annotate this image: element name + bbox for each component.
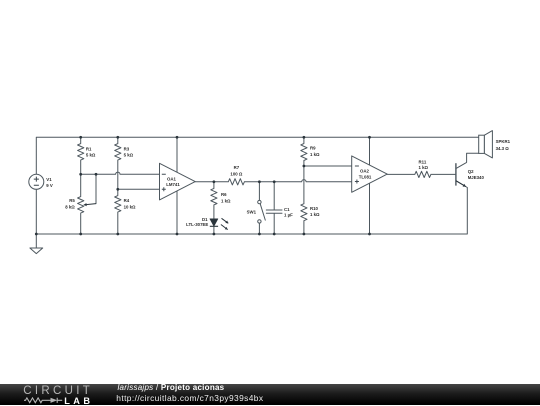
svg-text:1 kΩ: 1 kΩ bbox=[221, 198, 231, 203]
svg-text:1 µF: 1 µF bbox=[284, 212, 293, 217]
svg-text:LTL-307EE: LTL-307EE bbox=[186, 222, 208, 227]
svg-text:SPKR1: SPKR1 bbox=[496, 139, 511, 144]
svg-text:1 kΩ: 1 kΩ bbox=[310, 212, 320, 217]
svg-text:OA2: OA2 bbox=[360, 169, 370, 174]
svg-text:8 kΩ: 8 kΩ bbox=[65, 204, 75, 209]
svg-text:5 kΩ: 5 kΩ bbox=[86, 153, 96, 158]
svg-text:C1: C1 bbox=[284, 207, 290, 212]
svg-text:R5: R5 bbox=[69, 198, 75, 203]
svg-text:100 Ω: 100 Ω bbox=[230, 171, 242, 176]
svg-text:R11: R11 bbox=[419, 159, 427, 164]
svg-text:Q2: Q2 bbox=[468, 169, 474, 174]
svg-text:V1: V1 bbox=[46, 177, 52, 182]
svg-text:9 V: 9 V bbox=[46, 183, 53, 188]
svg-text:R7: R7 bbox=[234, 165, 240, 170]
svg-text:R6: R6 bbox=[221, 192, 227, 197]
svg-text:R1: R1 bbox=[86, 146, 92, 151]
svg-text:MJE340: MJE340 bbox=[468, 175, 485, 180]
svg-text:OA1: OA1 bbox=[167, 176, 177, 181]
svg-text:SW1: SW1 bbox=[247, 209, 257, 214]
svg-text:TL081: TL081 bbox=[359, 175, 372, 180]
svg-text:34.3 Ω: 34.3 Ω bbox=[496, 146, 510, 151]
svg-text:LM741: LM741 bbox=[166, 182, 180, 187]
svg-text:R9: R9 bbox=[310, 146, 316, 151]
svg-text:1 kΩ: 1 kΩ bbox=[310, 152, 320, 157]
svg-text:R4: R4 bbox=[124, 198, 130, 203]
svg-text:1 kΩ: 1 kΩ bbox=[419, 165, 429, 170]
svg-text:R3: R3 bbox=[124, 146, 130, 151]
svg-text:R10: R10 bbox=[310, 206, 319, 211]
svg-text:5 kΩ: 5 kΩ bbox=[124, 153, 134, 158]
svg-text:10 kΩ: 10 kΩ bbox=[124, 204, 136, 209]
